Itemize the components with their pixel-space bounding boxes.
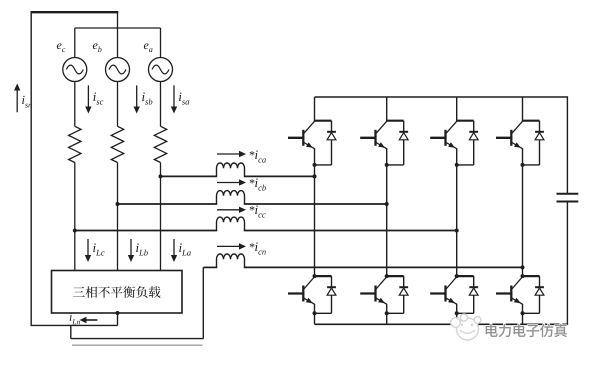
resistor: source impedance, phase a: [154, 126, 166, 162]
wire: phase b line to leg 2: [118, 203, 387, 205]
wire: phase b column to load, node B junction: [116, 163, 120, 271]
inductor L_cn: [217, 254, 245, 267]
wire: leg 2 top drop from DC+: [386, 97, 388, 121]
wire: leg 1 bottom drop to DC-: [314, 313, 316, 324]
arrow + label i_sn: [14, 84, 32, 113]
wire: neutral branch down to fourth-leg run: [71, 325, 204, 338]
transistor Q1 (upper IGBT, leg 1) with diode D1: [288, 121, 336, 167]
arrow + label *i_ca: [217, 150, 266, 162]
wire: DC bus negative rail: [315, 323, 569, 325]
wire: top neutral bus (thick): [31, 11, 119, 13]
transistor Q8 (lower IGBT, leg 4) with diode D8: [496, 274, 544, 315]
watermark text 电力电子仿真: [486, 324, 567, 337]
wire: phase a line to leg 1: [161, 175, 315, 177]
node: phase tap on leg 4: [521, 265, 525, 269]
node: phase tap on leg 3: [455, 229, 459, 233]
inductor L_cc: [217, 217, 245, 230]
node: phase tap on leg 1: [313, 174, 317, 178]
arrow + label i_Lc: [85, 239, 105, 262]
arrow + label i_sa: [171, 85, 189, 113]
arrow + label *i_cn: [217, 242, 266, 254]
wire: leg 3 midpoint vertical: [456, 165, 458, 276]
transistor Q3 (upper IGBT, leg 3) with diode D3: [430, 121, 478, 167]
wire: leg 2 bottom drop to DC-: [386, 313, 388, 324]
wire: fourth-leg riser to neutral inductor: [202, 267, 204, 338]
watermark logo (decorative): [451, 314, 481, 340]
arrow + label *i_cb: [217, 178, 266, 190]
wire: phase c column to load, node C junction: [73, 163, 77, 271]
wire: leg 3 bottom drop to DC-: [456, 313, 458, 324]
inductor L_ca: [217, 163, 245, 176]
wire: e_b top feed vertical: [117, 11, 119, 57]
wire: neutral line to leg 4: [203, 266, 522, 268]
arrow + label i_Lb: [128, 239, 148, 262]
AC source e_a: [149, 58, 173, 82]
arrow + label i_sc: [85, 85, 103, 113]
wire: leg 2 midpoint vertical: [386, 165, 388, 276]
wire: phase a column, source to resistor: [160, 81, 162, 126]
wire: leg 4 bottom drop to DC-: [522, 313, 524, 324]
wire: load neutral drop with junction on box bottom: [116, 311, 120, 325]
wire: source neutral tie (tops of e_c,e_b,e_a): [75, 28, 161, 58]
capacitor C (DC link): [557, 97, 579, 324]
transistor Q6 (lower IGBT, leg 2) with diode D6: [360, 274, 408, 315]
AC source e_c: [63, 58, 87, 82]
arrow + label *i_cc: [217, 205, 266, 217]
arrow + label i_sb: [134, 85, 153, 113]
label e_a: [144, 43, 153, 52]
wire: phase c line to leg 3: [75, 230, 457, 232]
faint separator line: [72, 344, 203, 346]
load box: three-phase unbalanced load: [52, 271, 183, 314]
transistor Q5 (lower IGBT, leg 1) with diode D5: [288, 274, 336, 315]
resistor: source impedance, phase c: [69, 126, 81, 162]
wire: leg 4 midpoint vertical: [522, 165, 524, 276]
wire: phase c column, source to resistor: [74, 81, 76, 126]
wire: leg 4 top drop from DC+: [522, 97, 524, 121]
wire: leg 1 midpoint vertical: [314, 165, 316, 276]
label e_b: [93, 43, 102, 52]
wire: DC bus positive rail: [315, 96, 569, 98]
arrow + label i_La: [171, 239, 191, 262]
transistor Q4 (upper IGBT, leg 4) with diode D4: [496, 121, 544, 167]
inductor L_cb: [217, 191, 245, 204]
wire: phase a column to load, node A junction: [159, 163, 163, 271]
node: phase tap on leg 2: [385, 202, 389, 206]
transistor Q7 (lower IGBT, leg 3) with diode D7: [430, 274, 478, 315]
wire: left neutral vertical (i_sn conductor): [30, 12, 32, 326]
wire: bottom neutral run to left vertical: [31, 324, 117, 326]
AC source e_b: [106, 58, 130, 82]
arrow + label i_Ln: [70, 313, 98, 324]
wire: leg 3 top drop from DC+: [456, 97, 458, 121]
wire: leg 1 top drop from DC+: [314, 97, 316, 121]
label e_c: [57, 43, 65, 52]
resistor: source impedance, phase b: [111, 126, 123, 162]
wire: phase b column, source to resistor: [117, 81, 119, 126]
transistor Q2 (upper IGBT, leg 2) with diode D2: [360, 121, 408, 167]
